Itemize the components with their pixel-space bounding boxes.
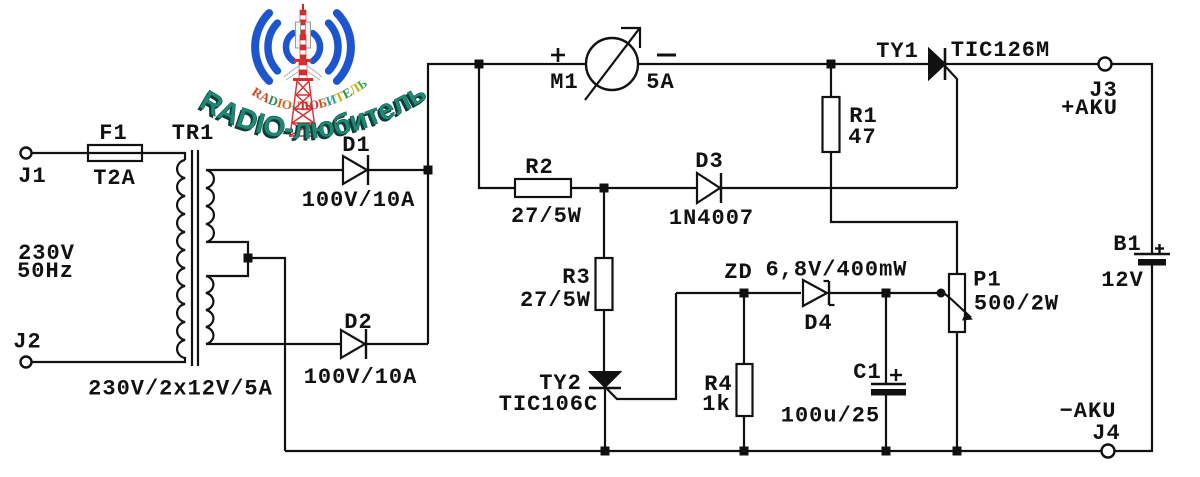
wire M1 to TY1 [638, 63, 929, 65]
M1 minus sign [657, 54, 676, 57]
svg-text:J4: J4 [1092, 421, 1120, 446]
junction top rail to R1 [827, 60, 836, 69]
svg-text:TIC126M: TIC126M [951, 38, 1050, 63]
resistor R4 [743, 293, 745, 364]
svg-text:D1: D1 [342, 133, 370, 158]
svg-text:R2: R2 [525, 155, 553, 180]
svg-text:M1: M1 [550, 70, 578, 95]
wire R2 to D3 [571, 187, 697, 189]
svg-text:6,8V/400mW: 6,8V/400mW [765, 258, 907, 283]
svg-text:TIC106C: TIC106C [499, 392, 598, 417]
junction D1/D2 [424, 166, 433, 175]
wire center tap down to bottom rail [248, 258, 285, 451]
junction C1 bottom [882, 447, 891, 456]
diode D3 [697, 173, 720, 203]
svg-text:J1: J1 [18, 164, 46, 189]
wire ZD row [676, 292, 801, 294]
svg-text:TY1: TY1 [876, 39, 919, 64]
wire J2 to TR1 primary [32, 357, 186, 362]
wire secondary top to D1 [206, 169, 343, 171]
svg-text:1k: 1k [702, 392, 730, 417]
svg-text:50Hz: 50Hz [17, 259, 74, 284]
svg-text:TR1: TR1 [172, 121, 215, 146]
junction top rail to R2 [475, 60, 484, 69]
C1 plus sign [890, 374, 902, 376]
logo guy wires [284, 66, 322, 80]
wire J1 to F1 [32, 152, 89, 154]
svg-text:100V/10A: 100V/10A [302, 188, 416, 213]
logo blue arc left r48 [255, 13, 269, 81]
wire D3 to TY1 gate [721, 187, 957, 189]
svg-text:D3: D3 [695, 149, 723, 174]
svg-text:+AKU: +AKU [1061, 96, 1118, 121]
svg-text:100u/25: 100u/25 [781, 404, 880, 429]
junction center tap [244, 254, 253, 263]
fuse F1 [88, 152, 142, 154]
wire top rail junction down to R2 [479, 64, 515, 188]
svg-text:5A: 5A [646, 70, 674, 95]
svg-text:F1: F1 [99, 121, 127, 146]
wire D2 row [206, 343, 341, 345]
junction C1 top [882, 289, 891, 298]
bottom rail [285, 450, 1102, 452]
thyristor TY2 [590, 372, 620, 387]
resistor R1 [830, 64, 832, 97]
svg-text:J2: J2 [13, 330, 41, 355]
junction R2/R3 [600, 184, 609, 193]
logo blue arc left r17 [286, 33, 293, 61]
transformer TR1 secondary winding top [206, 170, 214, 242]
zener diode D4 [803, 280, 827, 306]
wire D4 to P1 wiper [829, 292, 938, 294]
wire TY1 to J3 [945, 63, 1098, 65]
wire TY2 cathode to bottom rail [604, 388, 606, 451]
logo blue arc right r35 [329, 23, 338, 71]
wire J3 to battery [1112, 64, 1153, 253]
logo tower lattice base [289, 81, 317, 137]
resistor R3 [596, 258, 613, 310]
logo radio tower mast [293, 4, 313, 81]
terminal J2 [21, 357, 32, 368]
svg-text:C1: C1 [853, 360, 881, 385]
terminal J4 [1102, 445, 1115, 458]
junction R4 bottom [740, 447, 749, 456]
wire F1 to TR1 primary [142, 153, 185, 160]
junction P1 bottom [953, 447, 962, 456]
B1 plus sign [1155, 247, 1164, 249]
svg-text:100V/10A: 100V/10A [304, 365, 418, 390]
svg-text:ZD: ZD [724, 260, 752, 285]
wire D1 to junction [368, 169, 428, 171]
wire rectifier output vertical [428, 64, 586, 344]
svg-text:27/5W: 27/5W [520, 288, 591, 313]
thyristor TY1 [929, 49, 945, 79]
svg-text:T2A: T2A [93, 166, 136, 191]
wire secondary bottom to center tap [206, 258, 248, 276]
svg-text:12V: 12V [1101, 268, 1144, 293]
resistor R2 [515, 179, 571, 197]
capacitor C1 [885, 293, 887, 383]
junction TY2 bottom [601, 447, 610, 456]
diode D1 [343, 156, 367, 184]
TY2 gate wire [607, 293, 676, 399]
svg-text:R3: R3 [562, 265, 590, 290]
svg-text:230V/2x12V/5A: 230V/2x12V/5A [88, 377, 273, 402]
M1 plus sign [551, 54, 565, 57]
wire R3 to TY2 [603, 310, 605, 372]
ammeter M1 [586, 38, 638, 90]
transformer TR1 secondary winding bottom [206, 276, 213, 344]
logo: radio tower with blue signal arcs and arched RADIO-любитель text [192, 4, 432, 148]
junction R4 top [740, 289, 749, 298]
TY1 gate wire [945, 66, 957, 188]
logo blue arc right r48 [337, 13, 351, 81]
svg-text:D4: D4 [804, 311, 832, 336]
svg-text:27/5W: 27/5W [511, 204, 582, 229]
diode D2 [341, 330, 365, 358]
svg-text:D2: D2 [344, 310, 372, 335]
wire P1 bottom to rail [956, 332, 958, 451]
svg-text:P1: P1 [973, 268, 1001, 293]
transformer TR1 primary winding [177, 160, 185, 358]
terminal J1 [21, 148, 32, 159]
wire B1 to bottom rail [1115, 265, 1153, 451]
svg-text:1N4007: 1N4007 [669, 206, 754, 231]
terminal J3 [1099, 58, 1112, 71]
battery B1 [1134, 253, 1170, 256]
transformer TR1 core [191, 150, 193, 366]
wire secondary top to center tap [206, 242, 248, 258]
potentiometer P1 [949, 274, 965, 332]
logo blue arc right r17 [313, 33, 320, 61]
svg-text:47: 47 [848, 125, 876, 150]
wire junction to R3 [603, 188, 605, 258]
svg-text:500/2W: 500/2W [974, 292, 1059, 317]
svg-text:B1: B1 [1113, 232, 1141, 257]
wire R1 bottom to P1 top [831, 152, 957, 274]
logo blue arc left r35 [268, 23, 277, 71]
